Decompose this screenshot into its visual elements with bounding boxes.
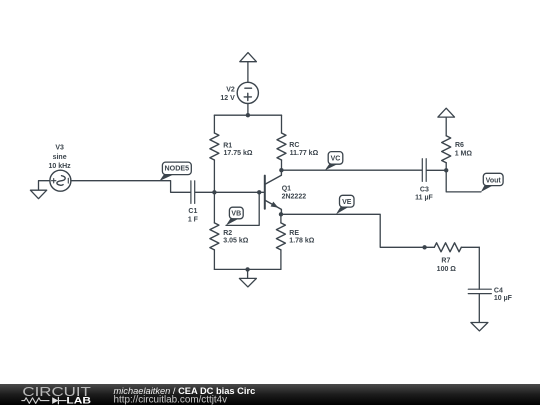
svg-text:100 Ω: 100 Ω [437,266,457,273]
net flag VB [226,207,243,225]
ground (V3) [30,190,46,199]
wire (R7 to C4) [478,247,480,289]
svg-text:http://circuitlab.com/cttjt4v: http://circuitlab.com/cttjt4v [114,394,228,405]
resistor R7 [425,243,480,273]
junction (emitter node) [279,212,283,216]
svg-text:VE: VE [342,199,352,206]
svg-text:R1: R1 [223,142,232,149]
resistor RC [277,115,319,170]
resistor R2 [210,192,249,269]
svg-text:VC: VC [331,156,341,163]
wire (arrow to V2 top) [247,62,249,83]
junction (collector node) [279,168,283,172]
svg-text:Q1: Q1 [282,186,291,193]
svg-text:R6: R6 [455,142,464,149]
net flag VE [336,195,354,214]
wire (bottom rail) [214,268,281,270]
svg-text:NODE5: NODE5 [165,166,190,173]
ground (C4) [471,323,488,331]
wire (V3 to ground) [39,181,50,191]
svg-text:VB: VB [231,211,241,218]
svg-text:C3: C3 [420,186,429,193]
svg-text:3.05 kΩ: 3.05 kΩ [223,237,248,244]
junction (bottom rail node) [245,267,249,271]
svg-text:Vout: Vout [486,177,502,184]
wire (VB branch) [226,192,259,225]
net flag VC [325,152,343,171]
wire (emitter rail) [281,214,425,247]
wire (V3 to C1) [71,181,190,193]
junction (R1/R2 node) [212,190,216,194]
resistor RE [276,214,314,269]
capacitor C1 [188,181,199,224]
transistor Q1 [265,170,306,214]
svg-text:10 µF: 10 µF [494,295,513,302]
svg-text:17.75 kΩ: 17.75 kΩ [224,150,253,157]
wire (V2 bottom to top rail) [247,104,249,116]
resistor R1 [210,115,253,192]
junction (base node) [257,190,261,194]
wire (to center ground) [247,269,249,278]
power flag arrow (R6 supply) [438,108,455,117]
wire (collector rail) [281,169,421,171]
power flag arrow (V2 supply) [240,53,257,62]
svg-text:R2: R2 [223,230,232,237]
svg-text:sine: sine [53,154,67,161]
wire (base rail) [195,191,264,193]
wire (Vout branch) [446,170,481,192]
svg-text:RE: RE [289,230,299,237]
wire (top rail) [214,114,281,116]
net flag NODE5 [159,162,191,181]
svg-text:LAB: LAB [66,395,91,405]
junction (Vout node) [444,168,448,172]
net flag Vout [481,173,503,192]
svg-text:C1: C1 [188,208,197,215]
junction (top rail node) [246,113,250,117]
svg-text:V3: V3 [55,145,64,152]
svg-text:V2: V2 [226,87,235,94]
ground (center) [239,278,256,287]
voltage source V2 [220,82,258,103]
svg-text:RC: RC [289,142,299,149]
voltage source V3 [49,145,72,192]
capacitor C3 [415,159,446,202]
svg-text:2N2222: 2N2222 [282,193,307,200]
svg-text:10 kHz: 10 kHz [49,163,72,170]
resistor R6 [442,117,473,170]
svg-text:11.77 kΩ: 11.77 kΩ [290,150,319,157]
svg-text:1.78 kΩ: 1.78 kΩ [289,237,314,244]
capacitor C4 [468,288,512,302]
junction (R7 node) [422,245,426,249]
CircuitLab logo [22,384,91,405]
wire (C4 to ground) [478,294,480,323]
svg-text:11 µF: 11 µF [415,195,433,202]
svg-text:R7: R7 [441,258,450,265]
svg-text:1 F: 1 F [188,217,199,224]
svg-text:C4: C4 [494,288,503,295]
svg-text:12 V: 12 V [220,95,235,102]
svg-text:1 MΩ: 1 MΩ [455,150,473,157]
